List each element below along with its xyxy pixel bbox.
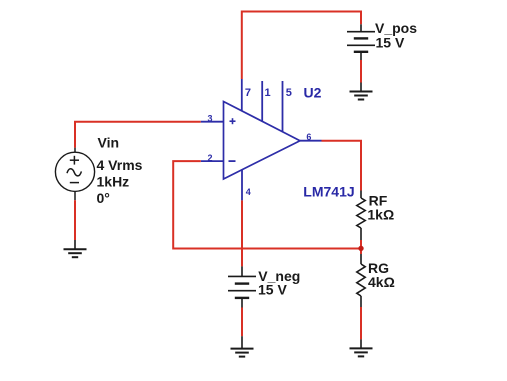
wire net pin4 to V_neg	[241, 200, 243, 266]
svg-text:3: 3	[208, 113, 213, 123]
pin 3 stub	[201, 121, 224, 123]
wire V_neg to ground	[241, 308, 243, 337]
battery V_pos	[347, 24, 375, 60]
svg-text:LM741J: LM741J	[303, 183, 354, 199]
svg-text:4 Vrms: 4 Vrms	[97, 157, 143, 173]
wire net V_pos: pin7 to battery V_pos	[242, 12, 361, 80]
ground (V_pos)	[350, 83, 373, 100]
svg-text:1kHz: 1kHz	[97, 174, 130, 190]
op-amp U2	[224, 102, 301, 180]
ground (RG)	[350, 339, 373, 356]
svg-text:4: 4	[246, 187, 251, 197]
wire net Vin to pin3	[75, 122, 201, 148]
svg-text:2: 2	[208, 153, 213, 163]
svg-text:1: 1	[265, 87, 271, 99]
wire RG to ground	[360, 307, 362, 339]
svg-text:4kΩ: 4kΩ	[368, 274, 395, 290]
svg-text:7: 7	[245, 87, 251, 99]
ground (V_neg)	[231, 336, 254, 356]
ground (Vin)	[64, 240, 87, 257]
pin 6 stub	[300, 140, 322, 142]
resistor RF	[357, 191, 365, 241]
pin 4 stub	[241, 170, 243, 201]
voltage source Vin	[55, 148, 94, 201]
wire net output: pin6 to RF	[322, 141, 362, 191]
wire net feedback: pin2 to RF/RG junction	[173, 161, 361, 248]
svg-text:15 V: 15 V	[258, 282, 287, 298]
wire Vin to ground	[74, 200, 76, 240]
pin 5 stub	[282, 81, 284, 132]
svg-text:1kΩ: 1kΩ	[367, 206, 394, 222]
pin 7 stub	[241, 79, 243, 111]
svg-text:V_pos: V_pos	[375, 20, 417, 36]
svg-text:U2: U2	[304, 85, 322, 101]
svg-text:5: 5	[286, 87, 292, 99]
junction node RF/RG/feedback	[358, 246, 363, 251]
battery V_neg	[228, 266, 256, 307]
svg-text:15 V: 15 V	[376, 35, 405, 51]
pin 1 stub	[261, 81, 263, 121]
wire battery V_pos to ground	[360, 60, 362, 83]
svg-text:Vin: Vin	[98, 134, 120, 150]
wire RF to junction	[360, 240, 362, 254]
svg-text:0°: 0°	[97, 190, 110, 206]
pin 2 stub	[201, 160, 224, 162]
resistor RG	[357, 254, 365, 307]
svg-text:6: 6	[306, 132, 311, 142]
